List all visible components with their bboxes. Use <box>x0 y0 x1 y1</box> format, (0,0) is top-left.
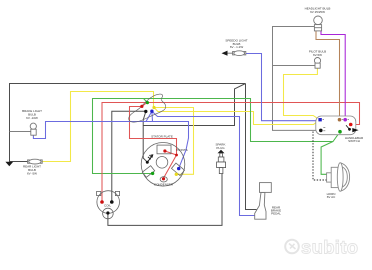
svg-text:POINTS: POINTS <box>176 148 187 152</box>
svg-text:subito: subito <box>301 237 358 258</box>
svg-text:CONDENSER: CONDENSER <box>154 183 174 187</box>
svg-text:PLUG: PLUG <box>216 146 225 150</box>
svg-text:6V -10W: 6V -10W <box>26 116 38 120</box>
svg-text:6V-5W: 6V-5W <box>313 53 322 57</box>
svg-text:6V -5W: 6V -5W <box>27 172 37 176</box>
svg-text:6V AC: 6V AC <box>327 195 336 199</box>
svg-text:COIL: COIL <box>104 204 111 208</box>
svg-text:PEDAL: PEDAL <box>271 212 281 216</box>
svg-text:SWITCH: SWITCH <box>348 139 360 143</box>
svg-text:STATOR PLATE: STATOR PLATE <box>151 135 173 139</box>
svg-text:6V - 1.2W: 6V - 1.2W <box>230 45 244 49</box>
svg-text:6V 25/25W: 6V 25/25W <box>310 10 325 14</box>
